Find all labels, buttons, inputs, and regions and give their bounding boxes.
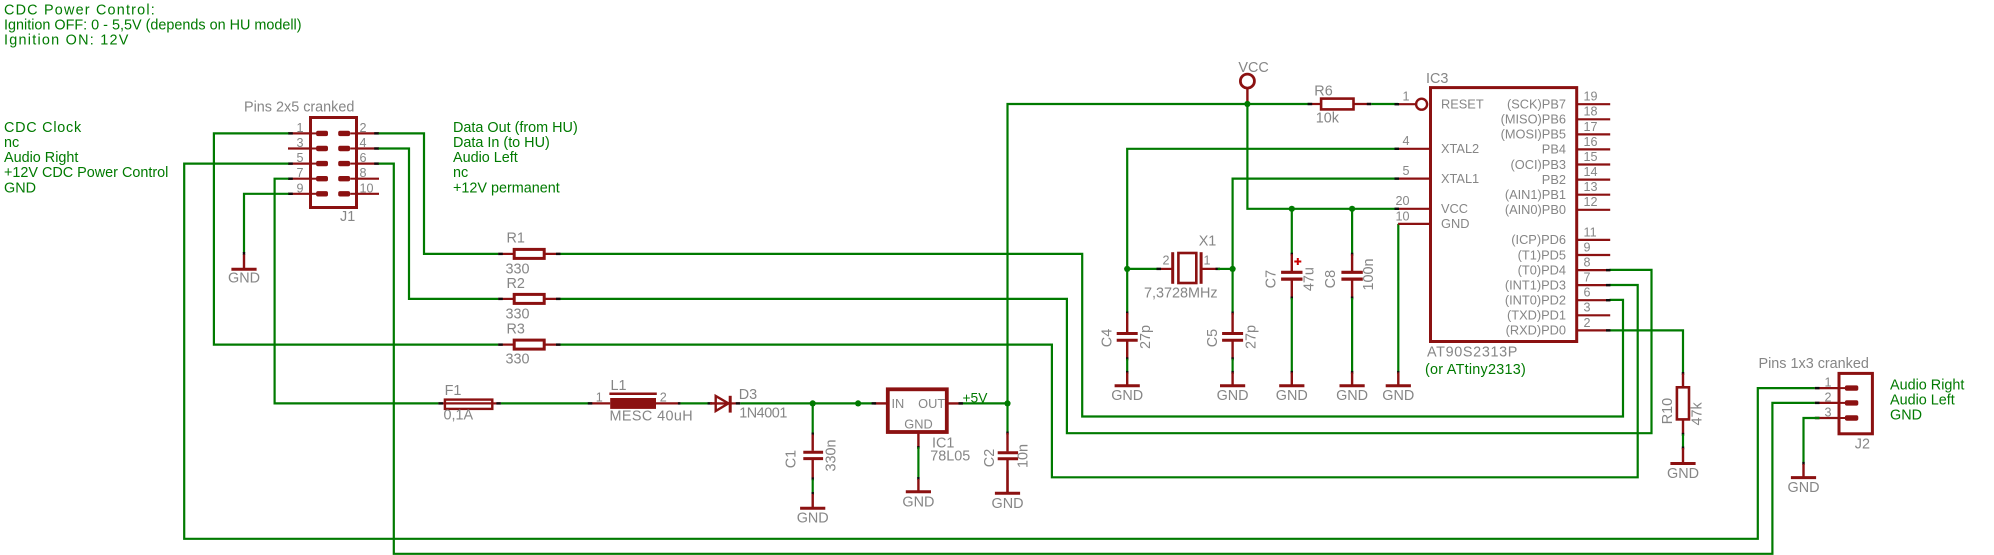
svg-text:C4: C4 (1099, 329, 1115, 347)
svg-text:(OCI)PB3: (OCI)PB3 (1511, 157, 1566, 172)
svg-text:GND: GND (228, 271, 260, 287)
svg-text:8: 8 (1584, 256, 1591, 270)
svg-text:330: 330 (506, 351, 530, 367)
svg-text:Pins 2x5 cranked: Pins 2x5 cranked (244, 100, 354, 116)
label J1 title (244, 100, 354, 116)
svg-text:GND: GND (1788, 480, 1820, 496)
svg-text:4: 4 (360, 136, 367, 150)
svg-text:OUT: OUT (918, 396, 945, 411)
svg-text:R2: R2 (507, 276, 525, 292)
svg-text:GND: GND (992, 496, 1024, 512)
svg-text:Audio Left: Audio Left (1890, 392, 1955, 408)
svg-text:2: 2 (1162, 253, 1169, 267)
svg-text:Data In (to HU): Data In (to HU) (453, 135, 550, 151)
svg-text:IC3: IC3 (1426, 71, 1448, 87)
label J2 refdes (1855, 436, 1870, 452)
svg-text:+12V CDC Power Control: +12V CDC Power Control (4, 165, 168, 181)
wire IC3 XTAL1 to crystal (1233, 179, 1399, 313)
svg-text:1: 1 (1824, 376, 1831, 390)
svg-text:(SCK)PB7: (SCK)PB7 (1507, 97, 1566, 112)
svg-text:PB4: PB4 (1542, 142, 1566, 157)
label F1 (444, 383, 474, 424)
svg-text:CDC Power Control:: CDC Power Control: (4, 3, 156, 19)
svg-text:CDC Clock: CDC Clock (4, 120, 82, 136)
wire IC1 GND pin to ground (917, 447, 919, 480)
resistor R10 (1677, 374, 1689, 450)
label C1 (784, 439, 840, 471)
svg-text:Ignition OFF: 0 - 5,5V (depend: Ignition OFF: 0 - 5,5V (depends on HU mo… (4, 18, 302, 34)
svg-text:R3: R3 (507, 322, 525, 338)
capacitor C2 (998, 403, 1018, 492)
ground of C5 (1217, 372, 1249, 404)
label R3 (506, 322, 530, 368)
junction node C8 (1349, 206, 1355, 212)
svg-text:12: 12 (1584, 195, 1598, 209)
resistor R2 (498, 294, 560, 303)
crystal X1 (1127, 252, 1232, 284)
capacitor C4 (1117, 312, 1138, 374)
wire R6 to IC3 RESET (1371, 103, 1398, 105)
svg-text:47k: 47k (1689, 401, 1705, 425)
wire J1 pin9 to ground (244, 194, 288, 255)
wire R1 to IC3 pin6 (INT0)PD2 (561, 254, 1624, 417)
svg-text:6: 6 (1584, 286, 1591, 300)
svg-text:6: 6 (360, 151, 367, 165)
label IC1 (930, 436, 970, 465)
svg-text:(MOSI)PB5: (MOSI)PB5 (1501, 127, 1566, 142)
connector J1 (Pins 2x5 cranked) (288, 118, 379, 208)
svg-text:Audio Left: Audio Left (453, 150, 518, 166)
fuse F1 (438, 400, 501, 409)
svg-text:L1: L1 (611, 378, 627, 394)
svg-text:VCC: VCC (1238, 60, 1268, 76)
label D3 (739, 387, 788, 422)
label IC3 alternative (green) (1425, 362, 1526, 378)
svg-text:RESET: RESET (1441, 97, 1484, 112)
label R6 (1314, 84, 1339, 127)
svg-text:330: 330 (506, 306, 530, 322)
svg-text:nc: nc (4, 135, 19, 151)
wire J1 pin2 Data Out to R1 (379, 133, 499, 254)
svg-text:R10: R10 (1660, 398, 1676, 424)
svg-text:C8: C8 (1323, 270, 1339, 288)
wire IC3 pin2 (RXD)PD0 to R10 (1611, 330, 1684, 375)
label VCC (1238, 60, 1268, 76)
svg-text:2: 2 (360, 121, 367, 135)
wire J1 pin7 +12V to F1 (275, 179, 439, 404)
svg-text:GND: GND (797, 510, 829, 526)
junction node XTAL1/C5 (1230, 266, 1236, 272)
J1 right pin legend (green) (453, 120, 578, 196)
svg-text:10: 10 (360, 181, 374, 195)
label L1 (596, 378, 693, 425)
svg-text:3: 3 (1584, 301, 1591, 315)
label R2 (506, 276, 530, 322)
ground of C2 (992, 470, 1024, 512)
svg-text:GND: GND (1441, 216, 1469, 231)
svg-text:(INT1)PD3: (INT1)PD3 (1505, 277, 1566, 292)
wire IC1 OUT +5V to C2 node (963, 402, 1008, 404)
svg-text:Pins 1x3 cranked: Pins 1x3 cranked (1759, 356, 1869, 372)
svg-text:(TXD)PD1: (TXD)PD1 (1507, 308, 1566, 323)
svg-text:330: 330 (506, 261, 530, 277)
wire IC3 XTAL2 to crystal (1127, 149, 1398, 313)
svg-text:11: 11 (1584, 225, 1597, 239)
resistor R3 (498, 340, 560, 349)
svg-text:4: 4 (1402, 134, 1409, 148)
svg-text:10: 10 (1395, 209, 1409, 223)
wire J1 pin1 CDC Clock to R3 (214, 133, 498, 344)
wire R2 to IC3 pin8 (T0)PD4 (561, 270, 1652, 433)
svg-text:GND: GND (1890, 407, 1922, 423)
svg-text:GND: GND (1276, 388, 1308, 404)
ground of C7 (1276, 372, 1308, 404)
label R10 (1660, 398, 1705, 426)
svg-text:1N4001: 1N4001 (739, 406, 787, 422)
svg-text:15: 15 (1584, 150, 1598, 164)
svg-text:27p: 27p (1138, 325, 1154, 349)
label +5V (963, 390, 989, 405)
resistor R1 (498, 249, 560, 258)
svg-text:GND: GND (1667, 466, 1699, 482)
label C8 (1323, 258, 1377, 290)
svg-text:14: 14 (1584, 165, 1598, 179)
svg-text:2: 2 (1824, 390, 1831, 404)
svg-text:Data Out (from HU): Data Out (from HU) (453, 120, 578, 136)
ground of IC1 (902, 479, 934, 510)
ground of R10 (1667, 448, 1699, 482)
svg-text:16: 16 (1584, 135, 1598, 149)
svg-text:GND: GND (1382, 388, 1414, 404)
svg-text:(AIN1)PB1: (AIN1)PB1 (1505, 187, 1566, 202)
label J2 title (1759, 356, 1869, 372)
label C5 (1205, 325, 1260, 349)
svg-text:47u: 47u (1301, 267, 1317, 291)
resistor R6 (1308, 99, 1372, 110)
inductor L1 (588, 394, 681, 409)
wire L1 to D3 (680, 402, 709, 404)
junction node C7 (1289, 206, 1295, 212)
svg-text:VCC: VCC (1441, 201, 1468, 216)
wire J1 pin4 Data In to R2 (379, 149, 499, 299)
svg-text:5: 5 (1402, 164, 1409, 178)
svg-text:18: 18 (1584, 105, 1598, 119)
svg-text:3: 3 (1824, 406, 1831, 420)
svg-text:(AIN0)PB0: (AIN0)PB0 (1505, 202, 1566, 217)
junction node +5V (1004, 400, 1010, 406)
label C7 (1264, 267, 1318, 291)
label C4 (1099, 325, 1154, 349)
svg-text:IN: IN (892, 396, 905, 411)
capacitor C1 (803, 403, 823, 495)
connector J2 (Pins 1x3 cranked) (1815, 373, 1873, 433)
svg-text:2: 2 (1584, 316, 1591, 330)
svg-text:C2: C2 (982, 449, 998, 467)
J2 pin legend (green) (1890, 377, 1964, 423)
ground of IC3 (1382, 372, 1414, 404)
svg-text:MESC 40uH: MESC 40uH (610, 409, 694, 425)
svg-text:13: 13 (1584, 180, 1598, 194)
label C2 (982, 444, 1032, 468)
junction node D3/IC1 (855, 400, 861, 406)
label IC3 (1426, 71, 1448, 87)
J1 left pin legend (green) (4, 120, 168, 196)
svg-text:1: 1 (296, 121, 303, 135)
ground of J2 (1788, 464, 1820, 496)
svg-text:D3: D3 (739, 387, 757, 403)
svg-text:9: 9 (296, 181, 303, 195)
svg-text:F1: F1 (445, 383, 462, 399)
svg-text:PB2: PB2 (1542, 172, 1566, 187)
svg-text:J1: J1 (340, 209, 355, 225)
svg-text:(MISO)PB6: (MISO)PB6 (1501, 112, 1566, 127)
label R1 (506, 231, 530, 278)
junction node C1 tap (810, 400, 816, 406)
svg-text:C1: C1 (784, 450, 800, 468)
svg-text:7: 7 (1584, 271, 1591, 285)
svg-text:330n: 330n (823, 439, 839, 471)
svg-text:GND: GND (904, 416, 932, 431)
svg-text:0,1A: 0,1A (444, 408, 474, 424)
label X1 (1144, 233, 1218, 301)
svg-text:19: 19 (1584, 90, 1598, 104)
ground of C4 (1111, 372, 1143, 404)
svg-text:AT90S2313P: AT90S2313P (1427, 345, 1518, 361)
svg-text:1: 1 (596, 391, 603, 405)
supply symbol VCC (1240, 74, 1254, 104)
svg-text:(T0)PD4: (T0)PD4 (1518, 262, 1566, 277)
junction node XTAL2/C4 (1124, 266, 1130, 272)
svg-text:Ignition ON: 12V: Ignition ON: 12V (4, 33, 130, 49)
ground of C8 (1336, 372, 1368, 404)
svg-text:1: 1 (1204, 253, 1211, 267)
svg-text:27p: 27p (1243, 325, 1259, 349)
label J1 refdes (340, 209, 355, 225)
svg-text:GND: GND (902, 494, 934, 510)
diode D3 (708, 396, 741, 413)
svg-text:7: 7 (296, 166, 303, 180)
svg-text:C7: C7 (1264, 270, 1280, 288)
svg-text:7,3728MHz: 7,3728MHz (1144, 285, 1218, 301)
svg-text:R1: R1 (507, 231, 525, 247)
svg-text:3: 3 (296, 136, 303, 150)
svg-text:XTAL1: XTAL1 (1441, 171, 1479, 186)
svg-text:+5V: +5V (963, 390, 989, 405)
wire D3 to IC1 IN (740, 402, 874, 404)
svg-text:+12V permanent: +12V permanent (453, 180, 560, 196)
svg-text:GND: GND (4, 180, 36, 196)
svg-text:17: 17 (1584, 120, 1598, 134)
svg-text:(ICP)PD6: (ICP)PD6 (1511, 232, 1566, 247)
svg-text:1: 1 (1402, 90, 1409, 104)
svg-text:Audio Right: Audio Right (4, 150, 78, 166)
svg-text:100n: 100n (1361, 258, 1377, 290)
svg-text:(INT0)PD2: (INT0)PD2 (1505, 293, 1566, 308)
svg-text:X1: X1 (1199, 233, 1217, 249)
microcontroller IC3 AT90S2313P (1395, 88, 1611, 342)
svg-text:20: 20 (1395, 194, 1409, 208)
svg-text:5: 5 (296, 151, 303, 165)
svg-text:C5: C5 (1205, 329, 1221, 347)
svg-text:XTAL2: XTAL2 (1441, 141, 1479, 156)
label IC3 value (1427, 345, 1518, 361)
svg-text:(RXD)PD0: (RXD)PD0 (1506, 323, 1566, 338)
svg-text:nc: nc (453, 165, 468, 181)
wire J1 pin5 Audio Right to J2 pin1 (184, 164, 1815, 539)
svg-text:J2: J2 (1855, 436, 1870, 452)
wire F1 to L1 (501, 402, 590, 404)
svg-text:(T1)PD5: (T1)PD5 (1518, 247, 1566, 262)
wire J1 pin6 Audio Left to J2 pin2 (379, 164, 1815, 554)
svg-text:GND: GND (1111, 388, 1143, 404)
svg-text:78L05: 78L05 (930, 449, 970, 465)
junction node VCC (1244, 101, 1250, 107)
svg-text:10n: 10n (1015, 444, 1031, 468)
svg-text:Audio Right: Audio Right (1890, 377, 1964, 393)
ground of J1 pin9 (228, 255, 260, 287)
svg-text:(or ATtiny2313): (or ATtiny2313) (1425, 362, 1526, 378)
note CDC power control (green annotation) (4, 3, 302, 49)
svg-text:9: 9 (1584, 240, 1591, 254)
svg-text:8: 8 (360, 166, 367, 180)
svg-text:GND: GND (1217, 388, 1249, 404)
wire R3 to IC3 pin7 (INT1)PD3 (561, 285, 1638, 477)
ground of C1 (797, 494, 829, 526)
capacitor C8 (1341, 209, 1362, 374)
capacitor C7 (electrolytic) (1281, 209, 1302, 374)
wire J2 pin3 to ground (1804, 418, 1820, 465)
voltage regulator IC1 78L05 (872, 389, 963, 449)
wire +5V rail to VCC row (1008, 104, 1310, 403)
svg-text:2: 2 (660, 391, 667, 405)
wire VCC down to IC3 pin20 (1247, 104, 1398, 209)
wire IC3 GND pin10 to ground (1397, 224, 1399, 374)
capacitor C5 (1222, 312, 1243, 374)
svg-text:10k: 10k (1316, 111, 1340, 127)
svg-text:GND: GND (1336, 388, 1368, 404)
svg-text:R6: R6 (1314, 84, 1332, 100)
